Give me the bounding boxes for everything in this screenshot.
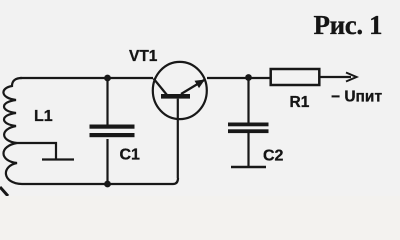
svg-text:Рис. 1: Рис. 1: [314, 10, 383, 40]
svg-text:R1: R1: [290, 94, 310, 111]
svg-text:− Uпит: − Uпит: [331, 89, 382, 106]
svg-text:L1: L1: [34, 108, 53, 125]
svg-text:C2: C2: [263, 148, 284, 165]
svg-text:C1: C1: [120, 147, 141, 164]
svg-text:VT1: VT1: [129, 48, 158, 65]
